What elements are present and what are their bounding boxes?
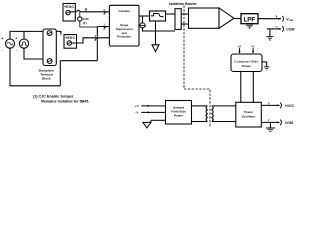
field ground G6 open triangle xyxy=(143,121,151,128)
signal transformer T10 primary rect xyxy=(175,9,181,30)
label Output-Side Power xyxy=(234,60,258,69)
power oscillator box U6 xyxy=(236,102,261,127)
wire +V arrow xyxy=(239,48,241,51)
surge suppression box U1 xyxy=(109,5,139,46)
waveform glyph xyxy=(151,14,164,18)
jumper post tick xyxy=(85,9,87,12)
svg-text:+VCC: +VCC xyxy=(285,104,295,108)
CJC sensor S1 xyxy=(78,12,98,27)
wire zero-cross to transformer xyxy=(166,13,176,15)
wire zero-cross ground stem xyxy=(155,21,157,45)
ground G2 under LPF xyxy=(246,25,253,28)
connector arc on line 3 xyxy=(95,38,98,41)
wire modulator to transformer xyxy=(143,28,176,31)
ground G4 xyxy=(264,67,269,70)
svg-text:Surge: Surge xyxy=(120,23,128,27)
wire output-side power to ground xyxy=(262,62,267,67)
svg-text:Computer-Side: Computer-Side xyxy=(234,60,258,64)
power transformer T20 secondary winding xyxy=(212,106,213,122)
screw terminal T2 xyxy=(47,59,52,64)
svg-text:+EXC: +EXC xyxy=(64,5,74,9)
screw terminal in box B xyxy=(67,41,71,45)
zero-crossing detector box U2 xyxy=(150,11,166,21)
wire LPF to Vout xyxy=(258,18,281,20)
ground G3 xyxy=(267,36,274,40)
connector arc on line 1 xyxy=(104,12,107,15)
connector chevron +VCC xyxy=(280,103,281,109)
ground G5 xyxy=(266,128,275,131)
screw terminal T1 xyxy=(47,31,52,36)
connector arc on line 2 xyxy=(104,27,107,30)
demodulator box U3 xyxy=(189,8,220,28)
isolated field-side power box U7 xyxy=(166,101,192,125)
wire top rail from V1 top to terminal block xyxy=(10,31,43,39)
source V2 pulse source xyxy=(19,39,28,48)
wire riser right of terminal text xyxy=(59,61,61,86)
arrowhead +VCC xyxy=(277,104,280,106)
wire surge to zero-cross box xyxy=(139,15,150,17)
power transformer T20 primary winding xyxy=(206,106,207,122)
wire surge input line 2 xyxy=(97,26,109,28)
wire V2 top stub xyxy=(23,31,25,39)
wire transformer to oscillator top xyxy=(212,105,236,107)
svg-text:-: - xyxy=(2,48,3,52)
wire transformer to demod top xyxy=(181,13,188,15)
wire -V line with arrow xyxy=(141,111,165,113)
wire COM output xyxy=(267,28,281,30)
backplane terminal strip box xyxy=(43,29,56,66)
output-side power box U5 xyxy=(231,54,262,72)
terminal box +EXC A xyxy=(63,4,75,22)
svg-text:Block: Block xyxy=(42,77,51,81)
label Isolated Field-Side Power xyxy=(171,105,186,117)
svg-text:-: - xyxy=(16,48,17,52)
svg-text:Power: Power xyxy=(242,64,252,68)
svg-text:out: out xyxy=(289,18,293,22)
low pass filter U4 xyxy=(241,14,258,24)
svg-text:(1) CJC Enable Jumper.: (1) CJC Enable Jumper. xyxy=(33,95,74,99)
connector chevron COM xyxy=(282,26,283,32)
svg-text:COM: COM xyxy=(285,121,293,125)
connector chevron COM bottom xyxy=(280,120,281,126)
svg-text:(1): (1) xyxy=(83,21,87,25)
screw terminal in box A xyxy=(66,10,70,14)
wire COM ground stem xyxy=(269,29,271,37)
wire +V line with arrow xyxy=(141,105,165,107)
svg-text:Power: Power xyxy=(244,110,254,114)
wire ground line into field-side power xyxy=(151,119,166,121)
label Backplane Terminal Block xyxy=(39,68,55,80)
svg-text:f: f xyxy=(145,24,146,28)
wire amp to LPF xyxy=(234,18,241,20)
wire COM bottom ground stem xyxy=(269,122,271,128)
arrowhead COM bottom xyxy=(277,121,280,123)
wire riser to surge input 2 xyxy=(96,27,98,61)
wire from terminal strip to EXC box B xyxy=(56,31,61,34)
isolation barrier dashed line xyxy=(184,6,210,128)
wire OSP to oscillator left xyxy=(240,72,242,103)
modulator M1 circle xyxy=(140,23,145,28)
jumper J1 hop xyxy=(76,10,80,12)
svg-text:Protection: Protection xyxy=(117,35,131,39)
terminal box +EXC B xyxy=(64,35,77,49)
wire transformer to oscillator bottom xyxy=(212,121,236,123)
wire field-side power to transformer top xyxy=(192,105,208,107)
connector chevron Vout xyxy=(282,16,283,22)
svg-text:Power: Power xyxy=(174,114,184,118)
label Power Oscillator xyxy=(242,110,257,119)
svg-text:Isolation: Isolation xyxy=(118,9,130,13)
svg-text:COM: COM xyxy=(286,27,294,31)
label Vout xyxy=(286,17,293,22)
arrowhead Vout xyxy=(279,18,282,20)
svg-text:Remains installed for 5B45.: Remains installed for 5B45. xyxy=(41,99,89,103)
wire lower mid horizontal to module xyxy=(60,60,97,62)
svg-text:Isolation Barrier: Isolation Barrier xyxy=(169,2,197,6)
wire oscillator to +VCC xyxy=(261,104,279,106)
svg-text:+: + xyxy=(15,36,17,40)
svg-text:+EXC: +EXC xyxy=(65,36,75,40)
svg-text:+: + xyxy=(1,36,3,40)
svg-text:Oscillator: Oscillator xyxy=(242,115,257,119)
wire oscillator to COM bottom xyxy=(261,121,279,123)
wire field-side power to transformer bottom xyxy=(192,121,208,123)
source V1 AC sine source xyxy=(5,39,14,48)
field ground G1 open triangle xyxy=(152,45,159,52)
wire transformer to demod bottom xyxy=(181,23,188,25)
wire surge input line 1 with jumper gap xyxy=(70,11,76,13)
footnote (1) CJC Enable Jumper xyxy=(33,95,89,104)
wire V2 bottom to terminal block xyxy=(24,48,43,59)
wire -V arrow xyxy=(252,48,254,51)
amplifier A1 triangle xyxy=(219,8,234,28)
wire surge input line 3 from EXC B xyxy=(72,38,110,43)
wire V1 bottom to lower rail xyxy=(10,48,60,86)
label Isolation Surge Suppression and Protection xyxy=(116,9,133,39)
arrowhead COM xyxy=(279,28,282,30)
wire modulator branch vertical xyxy=(142,16,144,23)
svg-text:LPF: LPF xyxy=(243,16,255,23)
wire OSP to oscillator right xyxy=(252,72,254,103)
